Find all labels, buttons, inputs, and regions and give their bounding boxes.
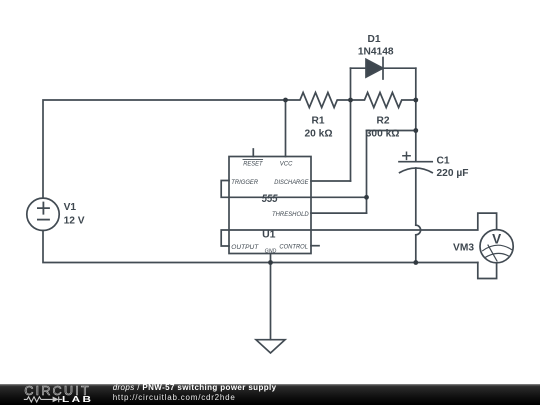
svg-text:V1: V1: [64, 202, 77, 213]
wire reset pin stub: [252, 149, 254, 157]
svg-text:300 kΩ: 300 kΩ: [366, 128, 400, 139]
svg-text:20 kΩ: 20 kΩ: [305, 128, 333, 139]
CircuitLab logo: [0, 384, 110, 406]
node: R2 right junction: [413, 98, 418, 103]
node: cap bottom rail junction: [413, 260, 418, 265]
svg-text:RESET: RESET: [243, 160, 263, 167]
svg-text:VM3: VM3: [453, 243, 474, 254]
svg-text:LAB: LAB: [62, 396, 93, 405]
V1 minus sign: [38, 219, 49, 221]
wire threshold riser: [366, 131, 368, 214]
svg-text:V: V: [492, 231, 501, 246]
node: cap top junction: [413, 128, 418, 133]
footer bar: [0, 384, 540, 405]
wire trigger bracket: [221, 181, 366, 198]
svg-text:U1: U1: [262, 228, 276, 240]
capacitor C1 top plate: [399, 161, 432, 163]
wire gnd pin to ground: [270, 254, 272, 340]
svg-text:THRESHOLD: THRESHOLD: [272, 211, 309, 218]
svg-text:OUTPUT: OUTPUT: [231, 244, 259, 251]
capacitor C1 bottom plate: [400, 168, 433, 173]
svg-text:R2: R2: [376, 116, 389, 127]
capacitor C1 plus sign: [403, 152, 410, 159]
555 timer U1 box: [229, 157, 311, 254]
logo diode: [53, 397, 59, 403]
wire V1 bottom to ground rail: [43, 231, 478, 263]
wire hop over output wire: [416, 225, 421, 235]
wire R2 bottom label rail: [367, 130, 416, 132]
svg-text:1N4148: 1N4148: [358, 47, 394, 58]
diode D1 triangle: [366, 59, 383, 77]
V1 plus sign: [38, 203, 49, 214]
wire cap bottom down to hop: [415, 168, 417, 225]
wire hop to ground rail: [415, 235, 417, 263]
voltage source V1: [27, 198, 59, 230]
resistor R2: [351, 93, 416, 108]
wire VCC pin riser: [285, 100, 287, 157]
svg-text:C1: C1: [437, 155, 450, 166]
pin RESET overline: [243, 158, 263, 160]
svg-text:555: 555: [262, 193, 279, 205]
wire output bracket to voltmeter: [221, 213, 496, 246]
resistor R1: [286, 93, 351, 108]
node: VCC junction: [283, 98, 288, 103]
wire V1 top to rail: [43, 100, 286, 198]
wire threshold pin: [311, 212, 367, 214]
wire voltmeter bottom jog: [478, 263, 497, 279]
footer title text: [113, 383, 277, 403]
svg-text:D1: D1: [367, 34, 380, 45]
node: R1/R2/diode junction: [348, 98, 353, 103]
logo resistor squiggle: [24, 397, 53, 402]
svg-text:R1: R1: [311, 116, 324, 127]
svg-text:220 µF: 220 µF: [437, 168, 469, 179]
wire right column top (diode right to cap top): [415, 68, 417, 162]
diode D1: [351, 67, 416, 69]
svg-text:GND: GND: [265, 248, 277, 254]
svg-text:CONTROL: CONTROL: [279, 243, 308, 250]
diode D1 cathode bar: [382, 58, 384, 80]
voltmeter VM3 needle and scale: [483, 245, 512, 261]
node: trigger/threshold junction: [364, 195, 369, 200]
ground symbol: [256, 340, 285, 353]
wire control pin stub: [311, 245, 319, 247]
wire discharge pin: [311, 180, 351, 182]
voltmeter VM3 body: [480, 230, 513, 263]
svg-text:DISCHARGE: DISCHARGE: [274, 179, 309, 186]
svg-text:VCC: VCC: [280, 160, 293, 167]
wire diode branch left riser / discharge riser: [350, 68, 352, 181]
node: gnd rail junction: [268, 260, 273, 265]
svg-text:TRIGGER: TRIGGER: [231, 179, 258, 186]
svg-text:12 V: 12 V: [64, 216, 85, 227]
